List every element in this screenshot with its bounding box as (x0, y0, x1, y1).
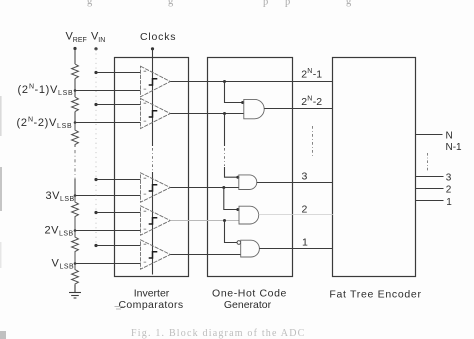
wire U1 output: thermometer row 2^N-1 through to Fat Tree (170, 81, 333, 83)
wire output 2 (416, 188, 444, 190)
inverting bubble at G5 top input (237, 241, 241, 245)
node VIN tap U3 (94, 178, 97, 181)
svg-text:LSB: LSB (59, 231, 74, 238)
wire G5 output row 1 (259, 248, 333, 250)
node dot at G4 top input (236, 208, 239, 211)
wire branch down (solid then elided dash-dot) to gate G3 top input (224, 114, 226, 147)
resistor R5 (72, 231, 79, 264)
node VIN tap U4 (94, 211, 97, 214)
elision dashed line (outputs) (427, 153, 429, 172)
comparator U4 (141, 206, 171, 235)
label VLSB (52, 258, 75, 271)
U3 input polarity marks (144, 178, 147, 194)
node junction on U3 output (222, 186, 225, 189)
wire (74, 91, 76, 98)
wire (74, 112, 76, 123)
wire ladder elided dash-dot (74, 150, 76, 179)
node tap 3VLSB (74, 194, 77, 197)
wire U5 output to gate G5 bottom input (170, 254, 240, 256)
wire clock line lower solid (152, 172, 154, 275)
svg-text:(2: (2 (18, 84, 29, 96)
comparator U3 (141, 173, 171, 202)
label 2VLSB (45, 225, 74, 238)
node dot at G1 top input (241, 101, 244, 104)
wire VIN to comparator U2 non-inverting input (96, 104, 141, 106)
wire G1 output row 2^N-2 (264, 108, 333, 110)
svg-text:g: g (87, 0, 93, 7)
U4 input polarity marks (144, 211, 147, 229)
wire (74, 179, 76, 196)
wire tap to comparator U2 inverting input (75, 122, 141, 124)
svg-text:p: p (263, 0, 268, 8)
wire clock line elided dash-dot (152, 148, 154, 171)
node Clocks top dot (151, 47, 154, 50)
resistor R3 (72, 123, 79, 148)
resistor R1 (72, 64, 79, 79)
elision dashed line between rows (channel) (312, 126, 314, 157)
label row 2^N-1 (301, 68, 322, 81)
U2 clock symbol (149, 111, 158, 117)
node VIN tap U5 (94, 244, 97, 247)
svg-text:p: p (285, 0, 290, 8)
resistor R4 (72, 196, 79, 231)
wire branch down to gate G5 top input (225, 221, 238, 243)
U5 clock symbol (149, 252, 158, 258)
and-gate G4 (output 2) (239, 206, 259, 224)
wire branch down to gate G4 top input (224, 188, 239, 210)
wire tap to comparator U3 inverting input (75, 195, 141, 197)
svg-text:g: g (168, 0, 174, 7)
node VIN tap U2 (94, 103, 97, 106)
svg-text:LSB: LSB (57, 123, 72, 130)
label VIN (91, 31, 105, 45)
and-gate G3 (output 3) (239, 175, 257, 190)
wire branch down to gate G1 top input (225, 82, 244, 103)
wire tap to comparator U4 inverting input (75, 230, 141, 232)
svg-text:-2: -2 (313, 96, 322, 108)
svg-text:N: N (307, 95, 312, 102)
comparator U2 (141, 99, 171, 129)
node dot at G3 top input (236, 176, 239, 179)
svg-text:3: 3 (446, 173, 452, 184)
svg-text:Fig. 1. Block diagram of the A: Fig. 1. Block diagram of the ADC (131, 328, 306, 339)
svg-text:-1: -1 (313, 69, 322, 81)
svg-text:REF: REF (73, 37, 87, 44)
svg-text:N: N (307, 68, 312, 75)
wire VIN to comparator U3 non-inverting input (96, 179, 141, 181)
svg-text:LSB: LSB (60, 264, 75, 271)
ground (69, 285, 81, 298)
wire output N (416, 134, 443, 136)
box One-Hot Code Generator (208, 58, 293, 277)
svg-text:Comparators: Comparators (118, 299, 183, 311)
U2 input polarity marks (144, 103, 147, 121)
box Fat Tree Encoder (333, 58, 416, 277)
svg-text:g: g (346, 0, 352, 7)
svg-text:LSB: LSB (60, 196, 75, 203)
wire VIN dotted bus (95, 49, 97, 246)
U5 input polarity marks (144, 244, 147, 262)
svg-text:3V: 3V (46, 190, 61, 202)
box Inverter Comparators (115, 58, 189, 277)
svg-text:Clocks: Clocks (140, 31, 176, 43)
label VREF (66, 31, 87, 45)
U1 clock symbol (149, 79, 158, 85)
wire U4 output to gate G4 bottom input (faint) (170, 220, 239, 222)
svg-text:-2)V: -2)V (34, 117, 58, 129)
node VIN tap U1 (94, 71, 97, 74)
scan smudges (edge artifacts) (0, 96, 2, 136)
wire clock line upper solid (152, 49, 154, 146)
node junction on U4 output (223, 219, 226, 222)
node junction on U2 output (223, 112, 226, 115)
wire VIN to comparator U5 non-inverting input (96, 245, 141, 247)
wire VIN to comparator U1 non-inverting input (96, 72, 141, 74)
wire G4 output row 2 (very faint in scan) (259, 214, 333, 216)
svg-text:(2: (2 (17, 117, 28, 129)
svg-text:IN: IN (98, 37, 105, 44)
svg-text:1: 1 (302, 237, 308, 249)
node tap VLSB (74, 262, 77, 265)
U4 clock symbol (149, 218, 158, 224)
wire tap to comparator U1 inverting input (75, 90, 141, 92)
svg-text:2V: 2V (45, 225, 60, 237)
resistor R2 (72, 97, 79, 112)
and-gate G5 (output 1) (241, 240, 260, 257)
label row 2^N-2 (301, 95, 322, 108)
wire G3 output row 3 (257, 182, 333, 184)
resistor R6 (72, 264, 79, 286)
svg-text:One-Hot Code: One-Hot Code (212, 287, 287, 299)
wire U3 output to gate G3 bottom input (170, 187, 239, 189)
node tap (2^N-2)VLSB (74, 121, 77, 124)
wire output 1 (416, 200, 444, 202)
wire tap to comparator U5 inverting input (75, 263, 141, 265)
label 3VLSB (46, 190, 75, 203)
U3 clock symbol (149, 185, 158, 191)
svg-text:Generator: Generator (224, 299, 272, 311)
svg-text:2: 2 (446, 185, 452, 196)
wire ladder top segment (74, 49, 76, 65)
comparator U1 (141, 66, 171, 97)
svg-text:LSB: LSB (58, 90, 73, 97)
label (2^N-1)VLSB (18, 84, 74, 98)
svg-text:3: 3 (302, 171, 308, 183)
node VREF top dot (73, 47, 76, 50)
node tap 2VLSB (74, 229, 77, 232)
wire VIN to comparator U4 non-inverting input (96, 212, 141, 214)
U1 input polarity marks (144, 71, 147, 89)
node VIN top dot (94, 47, 97, 50)
top caption fragment (cut-off text descenders) (87, 0, 352, 8)
node junction on row 2^N-1 (223, 80, 226, 83)
svg-text:N-1: N-1 (446, 142, 463, 153)
svg-text:-1)V: -1)V (35, 84, 59, 96)
node tap (2^N-1)VLSB (74, 89, 77, 92)
svg-text:2: 2 (302, 204, 308, 216)
label (2^N-2)VLSB (17, 117, 73, 131)
svg-text:1: 1 (446, 197, 452, 208)
svg-text:V: V (52, 258, 60, 270)
and-gate G1 (output 2^N-2) (244, 99, 264, 118)
svg-text:Inverter: Inverter (134, 287, 170, 299)
wire output 3 (416, 176, 444, 178)
svg-text:N: N (446, 130, 453, 141)
svg-text:Fat Tree Encoder: Fat Tree Encoder (329, 288, 421, 300)
wire (74, 79, 76, 91)
comparator U5 (141, 240, 171, 269)
wire U2 output to gate G1 bottom input (170, 113, 243, 115)
